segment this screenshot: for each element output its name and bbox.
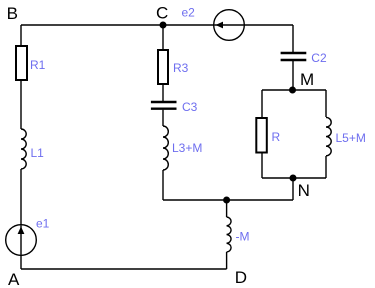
svg-text:e2: e2 bbox=[182, 6, 196, 20]
svg-text:C3: C3 bbox=[182, 100, 198, 114]
source e2 bbox=[214, 10, 245, 41]
wire C2 to M bbox=[292, 61, 294, 90]
svg-text:L5+M: L5+M bbox=[336, 131, 366, 145]
wire L5+M to N rail bbox=[325, 156, 327, 178]
wire e1 to A corner bbox=[20, 254, 22, 269]
svg-text:N: N bbox=[298, 181, 310, 200]
wire lower middle rail bbox=[163, 199, 293, 201]
svg-text:L3+M: L3+M bbox=[172, 141, 202, 155]
junction N dot bbox=[290, 175, 297, 182]
svg-text:A: A bbox=[8, 270, 20, 288]
resistor R3 bbox=[158, 50, 168, 84]
wire N rail bbox=[262, 177, 326, 179]
wire C to R3 bbox=[162, 25, 164, 49]
wire junction to -M coil bbox=[226, 200, 228, 217]
junction C dot bbox=[160, 22, 167, 29]
wire -M coil to D corner bbox=[226, 252, 228, 269]
wire L1 to e1 bbox=[20, 169, 22, 226]
wire M rail to L5+M bbox=[325, 90, 327, 117]
wire left branch: B corner to R1 bbox=[20, 25, 22, 45]
svg-text:M: M bbox=[300, 70, 314, 89]
junction D-branch dot bbox=[223, 197, 230, 204]
wire N to lower rail bbox=[292, 178, 294, 200]
wire C3 to L3+M bbox=[162, 110, 164, 126]
wire top rail B to top-right corner bbox=[21, 24, 293, 26]
wire L3+M to lower rail bbox=[162, 170, 164, 200]
wire R1 to L1 bbox=[20, 81, 22, 129]
wire M rail to R bbox=[261, 90, 263, 118]
svg-text:-M: -M bbox=[236, 230, 250, 244]
capacitor C3 bbox=[151, 102, 177, 109]
svg-text:L1: L1 bbox=[31, 146, 45, 160]
svg-text:D: D bbox=[235, 268, 247, 287]
svg-text:R3: R3 bbox=[173, 61, 189, 75]
svg-text:B: B bbox=[7, 4, 18, 23]
wire M rail bbox=[262, 89, 326, 91]
capacitor C2 bbox=[281, 53, 307, 60]
svg-text:C2: C2 bbox=[311, 51, 327, 65]
resistor R1 bbox=[16, 46, 27, 80]
source e1 bbox=[6, 225, 37, 256]
wire R3 to C3 bbox=[162, 85, 164, 101]
wire top-right corner to C2 bbox=[292, 25, 294, 52]
svg-text:R1: R1 bbox=[30, 58, 46, 72]
inductor L3+M bbox=[163, 126, 168, 170]
inductor L1 bbox=[21, 129, 26, 169]
junction M dot bbox=[289, 87, 296, 94]
svg-text:C: C bbox=[156, 4, 168, 23]
svg-text:e1: e1 bbox=[36, 217, 50, 231]
inductor L5+M bbox=[326, 117, 331, 155]
resistor R bbox=[256, 118, 267, 153]
wire R to N rail bbox=[261, 153, 263, 178]
inductor -M bbox=[227, 217, 231, 252]
svg-text:R: R bbox=[272, 130, 281, 144]
wire bottom rail A to D bbox=[21, 268, 227, 270]
